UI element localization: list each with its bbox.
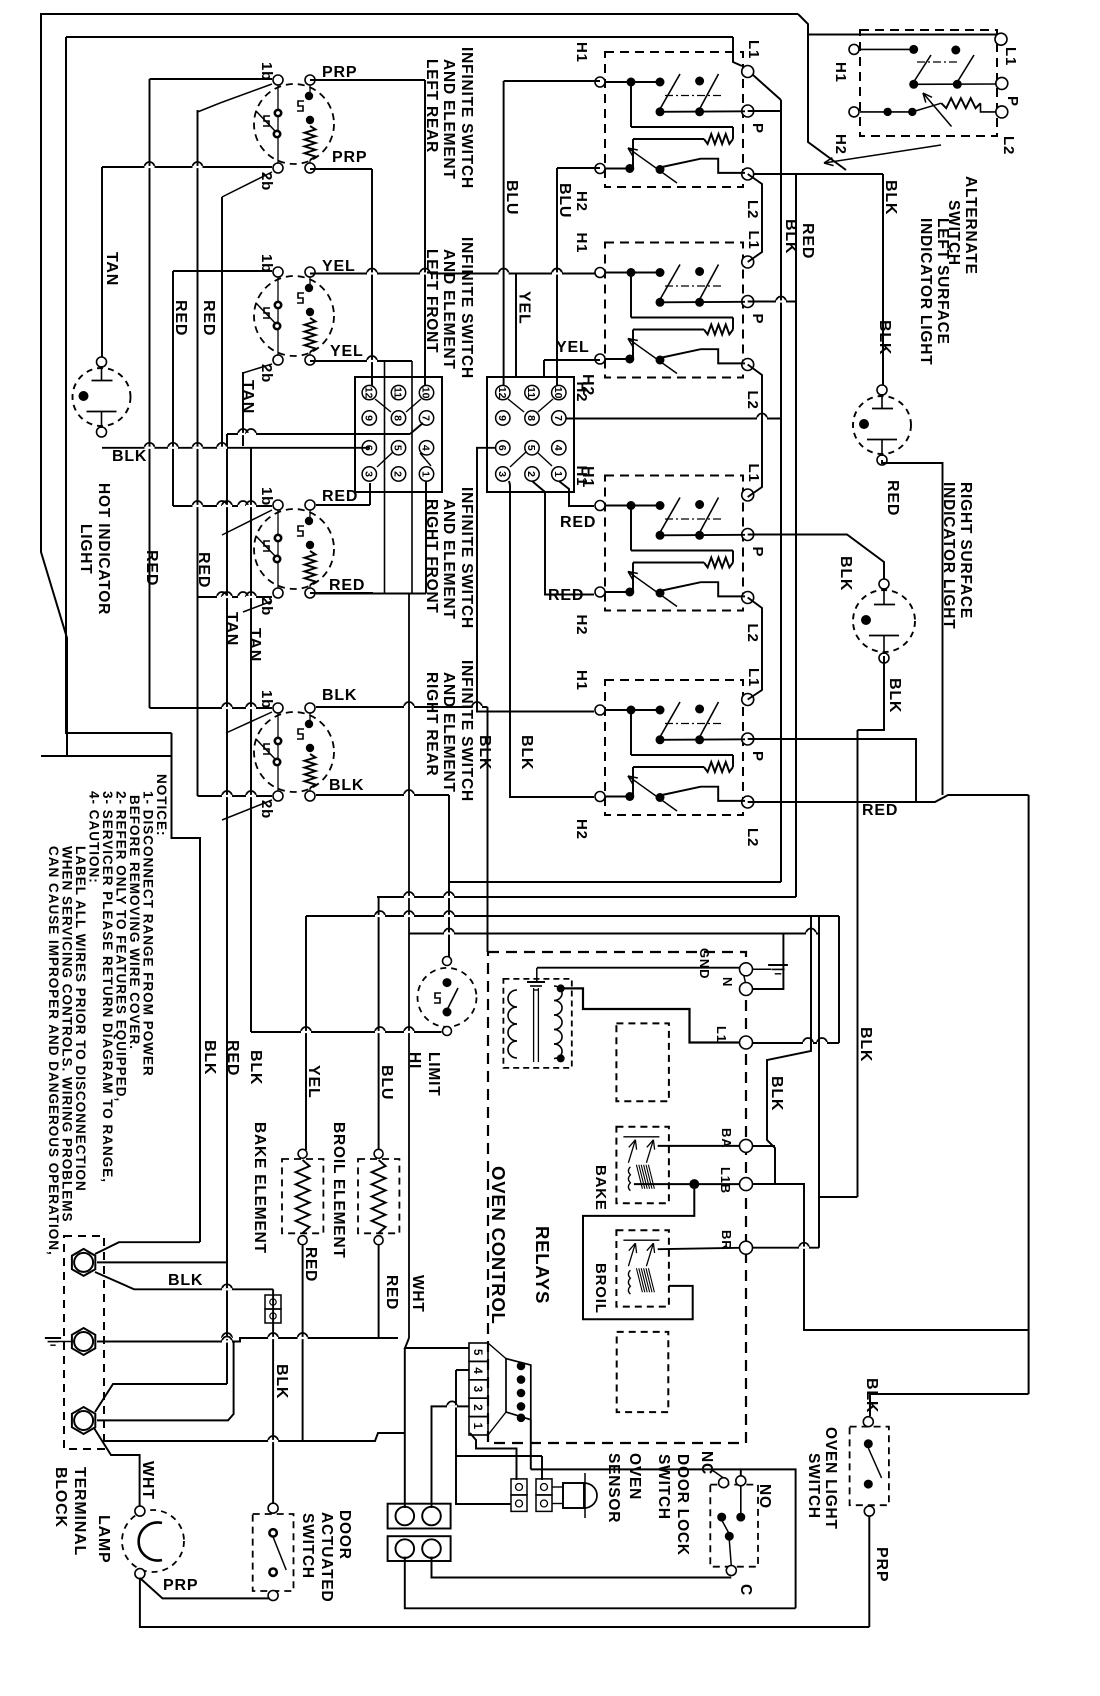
svg-text:BR: BR (719, 1230, 734, 1250)
svg-text:BLK: BLK (518, 735, 535, 770)
svg-text:BLK: BLK (768, 1076, 785, 1111)
svg-text:TAN: TAN (239, 380, 256, 414)
svg-text:BLK: BLK (886, 678, 903, 713)
svg-text:P: P (749, 547, 766, 558)
svg-text:PRP: PRP (873, 1547, 890, 1582)
svg-text:ALTERNATE: ALTERNATE (962, 176, 979, 275)
svg-text:H1: H1 (573, 670, 590, 691)
svg-text:RED: RED (195, 552, 212, 588)
svg-text:4: 4 (420, 445, 432, 451)
svg-text:H1: H1 (573, 466, 590, 487)
svg-text:TAN: TAN (223, 612, 240, 646)
svg-text:AND ELEMENT: AND ELEMENT (440, 59, 457, 180)
svg-text:7: 7 (552, 415, 564, 421)
svg-text:P: P (749, 751, 766, 762)
svg-text:L1B: L1B (718, 1167, 733, 1194)
svg-text:PRP: PRP (163, 1577, 198, 1594)
svg-text:L2: L2 (744, 200, 761, 219)
svg-text:CAN CAUSE IMPROPER AND DANGERO: CAN CAUSE IMPROPER AND DANGEROUS OPERATI… (46, 846, 61, 1256)
svg-text:RIGHT SURFACE: RIGHT SURFACE (957, 482, 974, 619)
svg-text:INFINITE SWITCH: INFINITE SWITCH (458, 487, 475, 629)
svg-text:INFINITE SWITCH: INFINITE SWITCH (458, 660, 475, 802)
svg-text:1: 1 (471, 1423, 483, 1430)
svg-text:BAKE: BAKE (592, 1165, 609, 1211)
svg-text:11: 11 (392, 387, 404, 398)
svg-text:12: 12 (496, 387, 508, 399)
svg-text:LEFT FRONT: LEFT FRONT (423, 249, 440, 353)
svg-text:L1: L1 (1002, 47, 1019, 66)
svg-text:YEL: YEL (305, 1065, 322, 1099)
svg-text:BLK: BLK (857, 1027, 874, 1062)
svg-text:12: 12 (363, 387, 375, 399)
svg-text:TERMINAL: TERMINAL (71, 1467, 88, 1556)
svg-text:BLK: BLK (882, 180, 899, 215)
svg-text:PRP: PRP (322, 64, 357, 81)
svg-text:YEL: YEL (516, 291, 533, 325)
svg-text:RED: RED (548, 587, 584, 604)
svg-text:H1: H1 (573, 233, 590, 254)
svg-text:INFINITE SWITCH: INFINITE SWITCH (458, 237, 475, 379)
svg-text:ACTUATED: ACTUATED (318, 1512, 335, 1603)
svg-text:RED: RED (329, 577, 365, 594)
svg-text:BLK: BLK (329, 777, 364, 794)
svg-text:YEL: YEL (556, 339, 590, 356)
svg-text:BAKE ELEMENT: BAKE ELEMENT (251, 1122, 268, 1254)
svg-text:OVEN CONTROL: OVEN CONTROL (488, 1166, 509, 1325)
svg-text:INFINITE SWITCH: INFINITE SWITCH (458, 47, 475, 189)
svg-text:PRP: PRP (332, 149, 367, 166)
svg-text:BLK: BLK (876, 320, 893, 355)
svg-text:LEFT SURFACE: LEFT SURFACE (934, 218, 951, 345)
svg-text:BROIL ELEMENT: BROIL ELEMENT (330, 1122, 347, 1259)
svg-text:BLK: BLK (863, 1378, 880, 1413)
svg-text:H1: H1 (832, 62, 849, 83)
svg-text:RED: RED (143, 550, 160, 586)
svg-text:BLK: BLK (247, 1050, 264, 1085)
svg-text:BLU: BLU (378, 1065, 395, 1100)
svg-text:L1: L1 (745, 40, 762, 59)
svg-text:RED: RED (200, 300, 217, 336)
svg-text:BROIL: BROIL (592, 1263, 609, 1314)
svg-text:6: 6 (496, 445, 508, 451)
svg-text:2b: 2b (258, 800, 275, 819)
svg-text:2b: 2b (258, 364, 275, 383)
svg-text:NC: NC (698, 1451, 715, 1475)
svg-text:N: N (720, 977, 735, 987)
svg-text:C: C (737, 1584, 754, 1596)
svg-text:2b: 2b (258, 172, 275, 191)
svg-text:H2: H2 (573, 191, 590, 212)
svg-text:SWITCH: SWITCH (299, 1513, 316, 1579)
svg-text:H1: H1 (573, 42, 590, 63)
svg-text:4: 4 (471, 1367, 483, 1374)
svg-text:NO: NO (756, 1484, 773, 1509)
svg-text:SWITCH: SWITCH (805, 1453, 822, 1519)
svg-text:RELAYS: RELAYS (532, 1226, 553, 1304)
svg-text:BLK: BLK (837, 556, 854, 591)
svg-text:L2: L2 (744, 828, 761, 847)
svg-text:2: 2 (525, 471, 537, 477)
svg-text:3: 3 (363, 471, 375, 477)
svg-text:L1: L1 (745, 464, 762, 483)
svg-text:5: 5 (471, 1349, 483, 1356)
svg-text:TAN: TAN (103, 252, 120, 286)
svg-text:L2: L2 (1000, 136, 1017, 155)
svg-text:LIGHT: LIGHT (77, 524, 94, 575)
svg-text:10: 10 (552, 387, 564, 399)
svg-text:RIGHT REAR: RIGHT REAR (423, 672, 440, 776)
svg-text:P: P (1004, 96, 1021, 107)
svg-text:RED: RED (862, 802, 898, 819)
svg-text:OVEN LIGHT: OVEN LIGHT (822, 1427, 839, 1530)
svg-text:P: P (749, 314, 766, 325)
svg-text:DOOR: DOOR (336, 1510, 353, 1560)
svg-text:2: 2 (392, 471, 404, 477)
svg-text:BLK: BLK (273, 1364, 290, 1399)
svg-text:AND ELEMENT: AND ELEMENT (440, 499, 457, 620)
svg-text:BLK: BLK (476, 735, 493, 770)
svg-text:RIGHT FRONT: RIGHT FRONT (423, 499, 440, 614)
svg-text:3: 3 (471, 1386, 483, 1392)
svg-text:BLOCK: BLOCK (52, 1467, 69, 1528)
svg-text:DOOR LOCK: DOOR LOCK (674, 1454, 691, 1556)
svg-text:L1: L1 (745, 668, 762, 687)
svg-text:H2: H2 (573, 819, 590, 840)
svg-text:5: 5 (392, 445, 404, 451)
svg-text:LEFT REAR: LEFT REAR (423, 59, 440, 153)
svg-text:L2: L2 (744, 391, 761, 410)
svg-text:HOT INDICATOR: HOT INDICATOR (95, 483, 112, 615)
svg-text:RED: RED (884, 480, 901, 516)
svg-text:3: 3 (496, 471, 508, 477)
svg-text:SWITCH: SWITCH (655, 1454, 672, 1520)
svg-text:1b: 1b (258, 62, 275, 81)
svg-text:1b: 1b (258, 690, 275, 709)
svg-text:BLK: BLK (782, 219, 799, 254)
svg-text:LAMP: LAMP (95, 1515, 112, 1564)
svg-text:11: 11 (525, 387, 537, 398)
svg-text:H2: H2 (573, 382, 590, 403)
svg-text:BLK: BLK (112, 448, 147, 465)
svg-text:9: 9 (496, 415, 508, 421)
svg-text:9: 9 (363, 415, 375, 421)
svg-text:BLK: BLK (201, 1040, 218, 1075)
svg-text:RED: RED (224, 1040, 241, 1076)
svg-text:HI: HI (406, 1052, 423, 1069)
svg-text:1b: 1b (258, 254, 275, 273)
svg-text:YEL: YEL (322, 258, 356, 275)
svg-text:WHT: WHT (409, 1275, 426, 1313)
svg-text:7: 7 (420, 415, 432, 421)
svg-text:1: 1 (420, 471, 432, 477)
svg-text:BLU: BLU (503, 180, 520, 215)
svg-text:OVEN: OVEN (626, 1453, 643, 1500)
svg-text:RED: RED (322, 488, 358, 505)
svg-text:LIMIT: LIMIT (425, 1052, 442, 1096)
svg-text:AND ELEMENT: AND ELEMENT (440, 672, 457, 793)
svg-text:BLU: BLU (556, 183, 573, 218)
svg-text:P: P (749, 123, 766, 134)
svg-text:2b: 2b (258, 597, 275, 616)
svg-text:6: 6 (363, 445, 375, 451)
svg-text:BLK: BLK (322, 687, 357, 704)
svg-text:AND ELEMENT: AND ELEMENT (440, 249, 457, 370)
svg-text:RED: RED (383, 1275, 400, 1310)
svg-text:4: 4 (552, 445, 564, 451)
svg-text:10: 10 (420, 387, 432, 399)
svg-text:2: 2 (471, 1404, 483, 1410)
svg-text:YEL: YEL (330, 343, 364, 360)
svg-text:H2: H2 (573, 615, 590, 636)
svg-text:H2: H2 (832, 134, 849, 155)
svg-text:RED: RED (172, 300, 189, 336)
svg-text:GND: GND (697, 948, 712, 979)
svg-text:BA: BA (719, 1128, 734, 1148)
svg-text:INDICATOR LIGHT: INDICATOR LIGHT (917, 218, 934, 365)
svg-text:1: 1 (552, 471, 564, 477)
svg-text:L1: L1 (745, 231, 762, 250)
svg-text:RED: RED (799, 223, 816, 259)
svg-text:RED: RED (560, 514, 596, 531)
svg-text:8: 8 (525, 415, 537, 421)
svg-text:RED: RED (302, 1247, 319, 1282)
svg-text:L1: L1 (714, 1026, 729, 1043)
svg-text:1b: 1b (258, 487, 275, 506)
svg-text:SENSOR: SENSOR (605, 1453, 622, 1523)
svg-text:WHT: WHT (139, 1461, 156, 1500)
svg-text:8: 8 (392, 415, 404, 421)
svg-text:TAN: TAN (246, 628, 263, 662)
svg-text:L2: L2 (744, 624, 761, 643)
svg-text:BLK: BLK (168, 1272, 203, 1289)
svg-text:5: 5 (525, 445, 537, 451)
